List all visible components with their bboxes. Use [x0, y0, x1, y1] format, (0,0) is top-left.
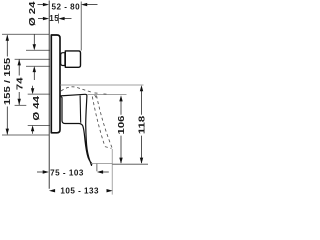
- wire dia44 top ext y94.1: [28, 93, 50, 95]
- wire top extension line y34: [2, 33, 49, 35]
- wire bottom extension line y135: [2, 134, 49, 136]
- wire raised tip vertical x112.2: [111, 149, 113, 195]
- wire bottom ext line y164.6: [112, 163, 148, 165]
- svg-text:Ø 24: Ø 24: [28, 1, 37, 26]
- wire 75-103 right ref bar x96.9: [96, 164, 98, 172]
- node dim 155/155: [6, 35, 8, 134]
- svg-text:15: 15: [49, 14, 59, 23]
- knob neck: [61, 53, 65, 66]
- wire 52-80 right ref line x81: [80, 2, 82, 51]
- wire handle tip ext line y163.5: [91, 163, 113, 165]
- wire ref line L1 y84.4: [60, 84, 144, 86]
- escutcheon plate: [51, 35, 60, 133]
- node dim 106: [120, 97, 122, 115]
- wire knob centerline ext y59.2: [15, 58, 50, 60]
- handle blade left face line: [79, 96, 82, 123]
- wire knob bottom ext y66.2: [26, 65, 50, 67]
- wire dia44 bottom ext y125.4: [28, 124, 50, 126]
- svg-text:Ø 44: Ø 44: [32, 96, 41, 121]
- node dim 118: [141, 87, 143, 115]
- wire 74 bottom short line y105.3: [15, 104, 27, 106]
- svg-text:118: 118: [138, 115, 147, 134]
- knob cap: [65, 51, 80, 67]
- svg-text:75 - 103: 75 - 103: [50, 169, 84, 178]
- handle lever solid: [60, 94, 92, 165]
- svg-text:155 / 155: 155 / 155: [3, 57, 12, 105]
- svg-text:106: 106: [117, 115, 126, 134]
- wire ref line L2 y94.4: [88, 94, 127, 96]
- svg-text:105 - 133: 105 - 133: [60, 187, 99, 196]
- wire wall line: [48, 1, 50, 189]
- svg-text:52 - 80: 52 - 80: [51, 3, 80, 12]
- node dim 74: [18, 59, 20, 75]
- node dashed handle raised: [61, 87, 112, 149]
- wire 15 right ref bar x58.4: [57, 14, 59, 24]
- svg-text:74: 74: [16, 77, 25, 90]
- wire knob top ext y50.2: [26, 49, 50, 51]
